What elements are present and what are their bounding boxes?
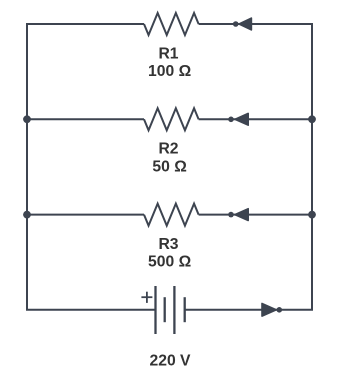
wire branch3 left segment	[27, 214, 144, 216]
svg-text:R3: R3	[158, 236, 178, 253]
resistor R1	[144, 13, 199, 35]
svg-text:R2: R2	[158, 141, 178, 158]
current arrow branch1	[233, 18, 252, 30]
node left branch3	[23, 211, 31, 219]
svg-text:R1: R1	[158, 45, 178, 62]
resistor R3	[144, 204, 199, 226]
svg-text:500 Ω: 500 Ω	[148, 254, 191, 271]
svg-text:100 Ω: 100 Ω	[148, 63, 191, 80]
node right branch3	[308, 211, 316, 219]
wire right loop: top-right, right rail, bottom-right	[185, 24, 312, 310]
current arrow branch2	[228, 113, 248, 125]
battery plus sign	[141, 292, 152, 303]
wire branch2 right segment	[199, 118, 312, 120]
current arrow branch3	[228, 209, 248, 221]
current arrow bottom	[262, 304, 282, 317]
wire branch3 right segment	[199, 214, 312, 216]
resistor R2	[144, 108, 199, 130]
wire left loop: top-left, left rail, bottom-left	[27, 24, 156, 310]
node left branch2	[23, 115, 31, 123]
svg-text:220 V: 220 V	[150, 353, 192, 370]
battery V1 plates	[156, 286, 185, 334]
wire branch2 left segment	[27, 118, 144, 120]
node right branch2	[308, 115, 316, 123]
svg-text:50 Ω: 50 Ω	[152, 158, 186, 175]
